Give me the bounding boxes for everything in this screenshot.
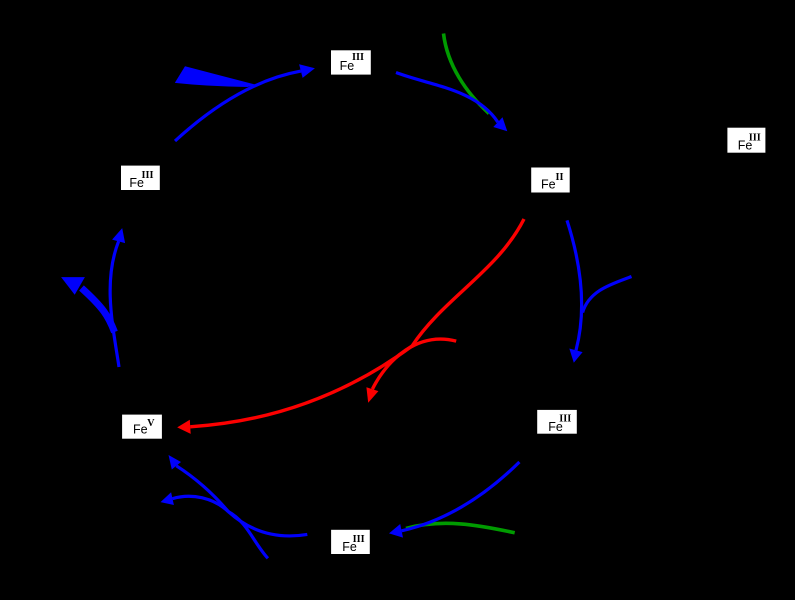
species box Fe(V) left-bottom — [122, 415, 162, 439]
species box Fe(III) bottom-right — [537, 410, 577, 434]
green co-substrate curve entering bottom arrow — [406, 523, 515, 532]
red arrow R1: Fe(II) to Fe(V) — [177, 219, 524, 434]
blue branch BR3 entering A3 from the right — [583, 277, 632, 313]
svg-text:Fe: Fe — [133, 423, 148, 437]
blue co-product branch BR5 crossing A5, arrowhead out left — [161, 492, 268, 558]
species box Fe(III) left-top — [121, 166, 160, 190]
blue arrow A3: Fe(II) to Fe(III) bottom-right — [567, 220, 583, 362]
svg-text:V: V — [147, 418, 155, 429]
blue arrow A5: Fe(III) bottom to Fe(V) — [169, 455, 308, 536]
thick blue co-product branch W6 with big arrowhead — [61, 277, 114, 332]
blue arrow A4: Fe(III) bottom-right to Fe(III) bottom — [389, 462, 519, 538]
blue wedge W1: thick entering stroke merging into A1 — [175, 66, 256, 87]
svg-text:III: III — [353, 534, 365, 545]
svg-text:III: III — [559, 414, 571, 425]
species box Fe(III) far right off-cycle — [727, 128, 765, 153]
svg-text:III: III — [142, 170, 154, 181]
red co-product branch R2 out of R1, arrowhead down — [366, 339, 456, 403]
blue arrow A1: Fe(III) left-top to Fe(III) top — [175, 64, 315, 141]
svg-text:III: III — [352, 52, 364, 63]
blue arrow A2: Fe(III) top to Fe(II) — [396, 73, 507, 132]
svg-text:II: II — [556, 172, 564, 183]
species box Fe(III) top — [331, 50, 371, 74]
species box Fe(III) bottom — [331, 530, 370, 554]
blue arrow A6: Fe(V) to Fe(III) left-top — [110, 228, 125, 367]
green co-substrate curve entering top-right arrow — [444, 34, 490, 114]
svg-text:III: III — [749, 132, 761, 143]
species box Fe(II) right — [531, 168, 570, 193]
svg-text:Fe: Fe — [541, 178, 556, 192]
